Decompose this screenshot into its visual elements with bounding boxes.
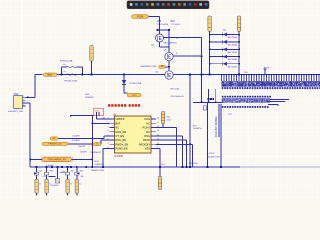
svg-text:C8D3748PV4L: C8D3748PV4L (163, 43, 178, 45)
svg-text:DSG: DSG (144, 134, 150, 138)
svg-text:1k: 1k (70, 184, 72, 186)
svg-text:R30: R30 (50, 170, 53, 172)
svg-text:C34: C34 (102, 117, 105, 119)
svg-text:B4C220A: B4C220A (228, 44, 238, 47)
svg-text:1: 1 (23, 96, 24, 98)
svg-text:RT565-100A: RT565-100A (65, 79, 78, 82)
svg-text:4.7k: 4.7k (43, 176, 47, 178)
svg-text:470uFPb: 470uFPb (51, 185, 60, 187)
svg-text:PRECHG_5V: PRECHG_5V (48, 143, 62, 145)
svg-text:R50 10Ω: R50 10Ω (171, 89, 180, 91)
svg-text:VDDCP: VDDCP (115, 117, 124, 121)
svg-text:RT565-100A: RT565-100A (60, 60, 73, 63)
svg-text:CHG_EN: CHG_EN (115, 130, 126, 134)
svg-text:PCB6: PCB6 (137, 15, 144, 18)
svg-text:4: 4 (23, 105, 24, 107)
svg-text:60kΩPb 100V: 60kΩPb 100V (208, 156, 221, 158)
svg-text:15: 15 (157, 122, 159, 124)
svg-text:PACK-BAT-SENSE1: PACK-BAT-SENSE1 (215, 115, 218, 137)
svg-text:D7 B4C220A: D7 B4C220A (129, 82, 142, 85)
svg-text:PRECHARGE_EN: PRECHARGE_EN (48, 158, 67, 161)
svg-text:2: 2 (23, 99, 24, 101)
svg-text:100kΩPb: 100kΩPb (85, 97, 94, 99)
svg-text:C31: C31 (62, 171, 65, 173)
svg-text:Q6: Q6 (40, 170, 43, 172)
svg-text:R32: R32 (80, 170, 83, 172)
svg-text:1.0kΩ±1%: 1.0kΩ±1% (95, 164, 105, 166)
svg-text:100kΩPb: 100kΩPb (193, 128, 202, 130)
svg-text:7: 7 (108, 143, 109, 145)
svg-text:CN2: CN2 (14, 94, 19, 96)
svg-text:80kΩPb 100V: 80kΩPb 100V (91, 170, 104, 172)
svg-text:100k: 100k (167, 119, 171, 121)
svg-text:3: 3 (108, 126, 109, 128)
svg-text:Bat-: Bat- (161, 163, 165, 166)
svg-text:4: 4 (108, 130, 109, 132)
svg-text:1k: 1k (49, 184, 51, 186)
svg-text:NJ7638: NJ7638 (115, 155, 124, 158)
svg-text:43045421_34B: 43045421_34B (8, 111, 23, 113)
svg-text:PMON_EN: PMON_EN (115, 142, 128, 146)
svg-text:PACKDIV: PACKDIV (139, 142, 150, 146)
svg-text:3: 3 (23, 102, 24, 104)
svg-text:BAT: BAT (115, 121, 120, 125)
svg-text:SI9435BDY(TNF: SI9435BDY(TNF (140, 66, 157, 68)
svg-text:NC: NC (115, 126, 119, 130)
svg-text:B4C220A: B4C220A (228, 65, 238, 68)
svg-text:10k: 10k (81, 176, 84, 178)
svg-text:Bat+: Bat+ (48, 73, 54, 76)
svg-text:1k: 1k (79, 184, 81, 186)
svg-text:B4C220A: B4C220A (228, 36, 238, 39)
svg-text:PACK: PACK (143, 138, 150, 142)
svg-text:+C(1): +C(1) (96, 152, 101, 154)
svg-text:10kΩPb: 10kΩPb (78, 146, 86, 148)
svg-text:NC: NC (146, 130, 150, 134)
svg-text:7K 47kΩPb: 7K 47kΩPb (157, 24, 169, 26)
svg-text:2.0kΩPb: 2.0kΩPb (72, 140, 81, 142)
svg-text:1k: 1k (39, 184, 41, 186)
svg-text:B4C220A: B4C220A (228, 51, 238, 54)
svg-text:OT_EN: OT_EN (115, 134, 124, 138)
svg-text:R31: R31 (71, 170, 74, 172)
svg-text:10kΩPb: 10kΩPb (80, 152, 87, 154)
svg-text:16: 16 (157, 118, 159, 120)
svg-text:8: 8 (108, 147, 109, 149)
svg-text:13: 13 (157, 130, 159, 132)
svg-text:~4TX10: ~4TX10 (208, 153, 216, 155)
svg-text:PCM3_EN: PCM3_EN (115, 147, 127, 151)
svg-text:TP 10k%: TP 10k% (171, 24, 180, 26)
svg-text:CHG: CHG (144, 117, 150, 121)
svg-text:DSG_EN: DSG_EN (115, 138, 126, 142)
svg-text:NC: NC (146, 121, 150, 125)
svg-text:B4C220A: B4C220A (228, 58, 238, 61)
svg-text:2.0kΩPb: 2.0kΩPb (72, 135, 81, 137)
svg-text:PCHG: PCHG (143, 126, 151, 130)
svg-text:VSS: VSS (145, 147, 150, 151)
svg-text:R16 10kΩ±1%: R16 10kΩ±1% (171, 96, 185, 98)
